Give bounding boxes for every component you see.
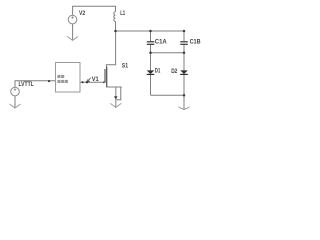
transistor S1 gate bar: [104, 69, 106, 83]
gate driver text line 2: [57, 80, 68, 83]
wire LVTTL to ground: [14, 96, 16, 108]
ground (V2): [67, 36, 78, 40]
wire C1A top stub: [150, 31, 152, 41]
ground (S1 source): [110, 103, 121, 107]
probe V1 dot: [86, 81, 89, 84]
svg-text:L1: L1: [120, 10, 125, 17]
capacitor C1B: [180, 42, 188, 45]
transistor S1 channel bar: [106, 67, 108, 83]
wire C1A bottom stub: [150, 45, 152, 53]
wire D2 branch lower: [183, 75, 185, 110]
node box input pin dot: [48, 80, 50, 82]
capacitor C1A: [147, 42, 155, 45]
svg-text:D2: D2: [171, 68, 178, 75]
node junction dot (L1/drain): [114, 30, 117, 33]
wire D2 branch upper: [183, 53, 185, 71]
ground (diodes): [179, 107, 190, 110]
diode D2: [180, 70, 188, 74]
node box output pin dot: [81, 81, 83, 83]
node junction dot (C1B lower): [183, 52, 186, 55]
wire source line: [107, 83, 122, 87]
wire LVTTL to box: [15, 81, 56, 88]
gate driver box: [56, 63, 81, 93]
gate driver text line 1: [57, 75, 64, 78]
wire diode bottom link: [151, 94, 185, 96]
svg-text:C1B: C1B: [190, 38, 201, 45]
svg-text:C1A: C1A: [155, 38, 167, 45]
wire C1B bottom stub: [183, 45, 185, 53]
node junction dot (C1B tap): [183, 30, 186, 33]
node junction dot (C1A tap): [149, 30, 152, 33]
wire drain vertical: [106, 31, 115, 67]
wire top rail: [73, 6, 116, 15]
wire gate lead: [80, 81, 104, 83]
wire D1 branch upper: [150, 53, 152, 71]
wire source drop B: [116, 87, 121, 100]
svg-text:S1: S1: [122, 62, 129, 69]
transistor S1 source arrow: [114, 96, 118, 99]
wire mosfet ground stub: [115, 100, 117, 107]
wire lower mid rail: [151, 52, 185, 54]
probe V1 arrow: [87, 78, 90, 82]
wire C1B top stub: [183, 31, 185, 41]
node junction dot (diode bottom): [183, 94, 186, 97]
wire source drop A: [115, 87, 117, 97]
svg-text:V1: V1: [92, 76, 99, 83]
wire node to C1B rail: [116, 30, 185, 32]
ground (LVTTL): [10, 104, 21, 108]
node gate connection dot: [103, 81, 105, 83]
voltage source V2: [68, 15, 77, 24]
wire V2 to ground: [72, 24, 74, 40]
wire D1 branch lower: [150, 75, 152, 96]
voltage source LVTTL: [11, 87, 20, 96]
svg-text:LVTTL: LVTTL: [19, 81, 34, 88]
inductor L1: [114, 12, 116, 22]
diode D1: [147, 70, 155, 74]
svg-text:V2: V2: [79, 10, 86, 17]
wire L1 bottom to node: [115, 22, 117, 32]
svg-text:D1: D1: [155, 68, 161, 75]
node junction dot (C1A lower): [149, 52, 152, 55]
